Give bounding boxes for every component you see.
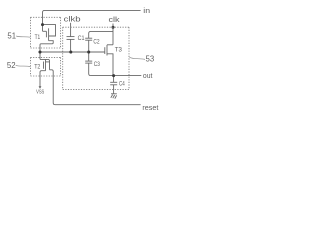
svg-text:reset: reset — [142, 105, 158, 112]
svg-text:clkb: clkb — [64, 17, 81, 24]
svg-text:52: 52 — [7, 61, 16, 70]
svg-text:T1: T1 — [35, 35, 41, 41]
svg-text:C2: C2 — [93, 40, 100, 46]
svg-text:51: 51 — [7, 32, 16, 41]
svg-text:out: out — [143, 73, 153, 80]
svg-text:in: in — [143, 8, 150, 15]
svg-text:53: 53 — [146, 54, 155, 63]
svg-text:T3: T3 — [115, 47, 123, 53]
svg-text:C4: C4 — [119, 82, 125, 88]
svg-text:C1: C1 — [78, 36, 85, 42]
svg-text:T2: T2 — [34, 65, 41, 71]
svg-text:C3: C3 — [94, 62, 101, 68]
svg-text:clk: clk — [109, 17, 121, 24]
svg-text:VSS: VSS — [36, 89, 44, 95]
